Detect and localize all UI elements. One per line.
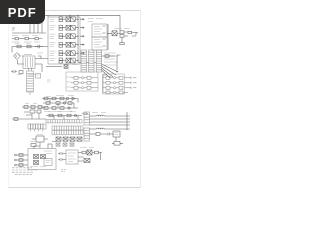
wire top supply bus <box>44 15 120 31</box>
IC U21 bus transceiver <box>52 130 83 134</box>
wire bridge to transformer <box>18 56 25 64</box>
resistor R40 <box>30 142 37 147</box>
resistor network RN2 <box>46 120 82 123</box>
resistor R5 <box>36 74 41 79</box>
diode D20 <box>84 159 90 163</box>
diode D15 <box>63 143 67 146</box>
wire ladder outputs <box>102 55 121 73</box>
opto-driver U3 <box>50 34 85 39</box>
opto-driver U4 <box>50 42 85 47</box>
opto-driver U1 <box>50 17 85 22</box>
sensor wiring harness <box>12 110 46 120</box>
auxiliary module X2 <box>44 159 52 166</box>
relay K1 <box>114 29 138 45</box>
diode D5 below box <box>46 65 78 69</box>
wire fan-out lines <box>102 64 118 78</box>
triac Q1 <box>112 31 120 36</box>
phase output group box <box>66 72 98 91</box>
varistor RV2 <box>41 155 46 159</box>
wire bus branch to driver box <box>48 15 78 18</box>
IC U20 bus transceiver <box>52 126 83 130</box>
wire TB1 top feed <box>34 142 56 149</box>
resistor R2 <box>26 44 31 48</box>
opto-driver U5 <box>50 51 85 56</box>
fuse F2 <box>22 37 32 39</box>
output channel CH2 <box>103 81 136 84</box>
header JP1 <box>28 124 46 132</box>
opto-driver U2 <box>50 25 85 30</box>
crystal Y1 <box>112 142 123 146</box>
capacitor C2 <box>11 70 17 73</box>
output group box B <box>103 74 125 94</box>
resistor R41 <box>82 151 86 154</box>
net label +5V <box>47 80 51 82</box>
diode D10 <box>56 137 61 141</box>
PDF badge <box>0 0 45 24</box>
wire data lines upper <box>89 119 127 125</box>
capacitor C21 <box>58 158 66 161</box>
connector ladder P2 <box>89 50 94 72</box>
node bus junctions <box>69 15 78 16</box>
comparator stage cluster <box>42 95 78 111</box>
inductor L1 <box>89 115 127 116</box>
connector ladder P3 <box>96 50 101 72</box>
fuse F3 <box>32 37 42 39</box>
capacitor C1 <box>35 45 43 48</box>
diode D12 <box>70 137 75 141</box>
phase channel PH2 <box>66 81 98 84</box>
transformer T1 <box>23 53 43 69</box>
wire terminator pull-ups <box>127 112 130 130</box>
capacitor C12 <box>108 133 114 136</box>
diode bridge D1 <box>14 53 21 60</box>
wire bus to relay cluster <box>107 31 120 34</box>
phase channel PH3 <box>66 86 98 89</box>
capacitor C8 <box>82 112 88 115</box>
diode D11 <box>63 137 68 141</box>
connector ladder P1 <box>81 50 86 72</box>
resistor R42 <box>95 151 99 154</box>
title block text <box>12 168 38 175</box>
wire AC input drops under badge <box>12 23 46 33</box>
resistor R3 <box>17 71 23 75</box>
triac Q6 <box>87 150 92 155</box>
wire J1 to relay <box>107 24 109 50</box>
transistor Q5 <box>113 131 120 141</box>
wire left feed <box>12 47 48 53</box>
fuse F1 <box>12 37 22 39</box>
page border <box>8 10 141 12</box>
pot VR2 <box>57 142 73 144</box>
label U30 ref <box>80 146 94 148</box>
connector ladder P4 <box>84 112 106 141</box>
wire ladder feed <box>78 61 96 63</box>
input terminal PE <box>15 164 28 167</box>
resistor row R20 <box>46 114 82 119</box>
input terminal N <box>15 159 28 162</box>
net name table <box>104 53 118 65</box>
output channel CH3 <box>103 86 136 89</box>
IC U10 driver array box <box>48 17 80 64</box>
diode D16 <box>70 143 74 146</box>
diode D14 <box>56 143 60 146</box>
wire U30 outputs <box>78 153 102 162</box>
revision note <box>61 170 67 172</box>
inductor L2 <box>89 128 127 129</box>
net label VCC <box>28 75 36 77</box>
label input text <box>12 36 40 42</box>
diode D13 <box>77 137 82 141</box>
connector J1 <box>92 24 107 37</box>
phase channel PH1 <box>66 76 98 79</box>
terminal block TB1 <box>28 149 56 170</box>
capacitor C20 <box>58 152 66 155</box>
resistor chain R10 <box>22 104 46 109</box>
resistor R1 <box>15 44 21 48</box>
input terminal L <box>15 154 28 157</box>
output channel CH1 <box>103 76 136 79</box>
label net names top <box>88 19 103 22</box>
wire transformer secondary <box>35 56 48 72</box>
resistor ladder RN1 <box>27 68 34 96</box>
label row notes <box>48 111 76 113</box>
IC U30 supervisor <box>66 150 78 164</box>
varistor RV1 <box>34 155 39 159</box>
wire channel feed bus <box>103 75 107 92</box>
regulator VR1 <box>32 135 48 149</box>
output channel CH4 <box>103 91 128 94</box>
opto-driver U6 <box>50 58 79 63</box>
resistor R30 <box>89 133 108 136</box>
connector J2 <box>92 37 107 50</box>
varistor RV3 <box>34 161 39 165</box>
vertical bus inside driver box <box>77 18 79 61</box>
